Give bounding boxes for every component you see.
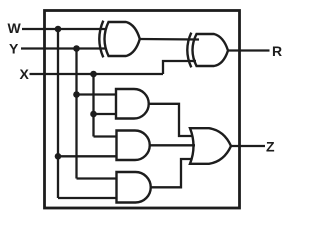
svg-text:W: W (8, 20, 22, 36)
svg-text:Z: Z (266, 139, 275, 155)
svg-text:R: R (272, 43, 282, 59)
svg-text:X: X (20, 66, 30, 82)
svg-text:Y: Y (9, 41, 19, 57)
